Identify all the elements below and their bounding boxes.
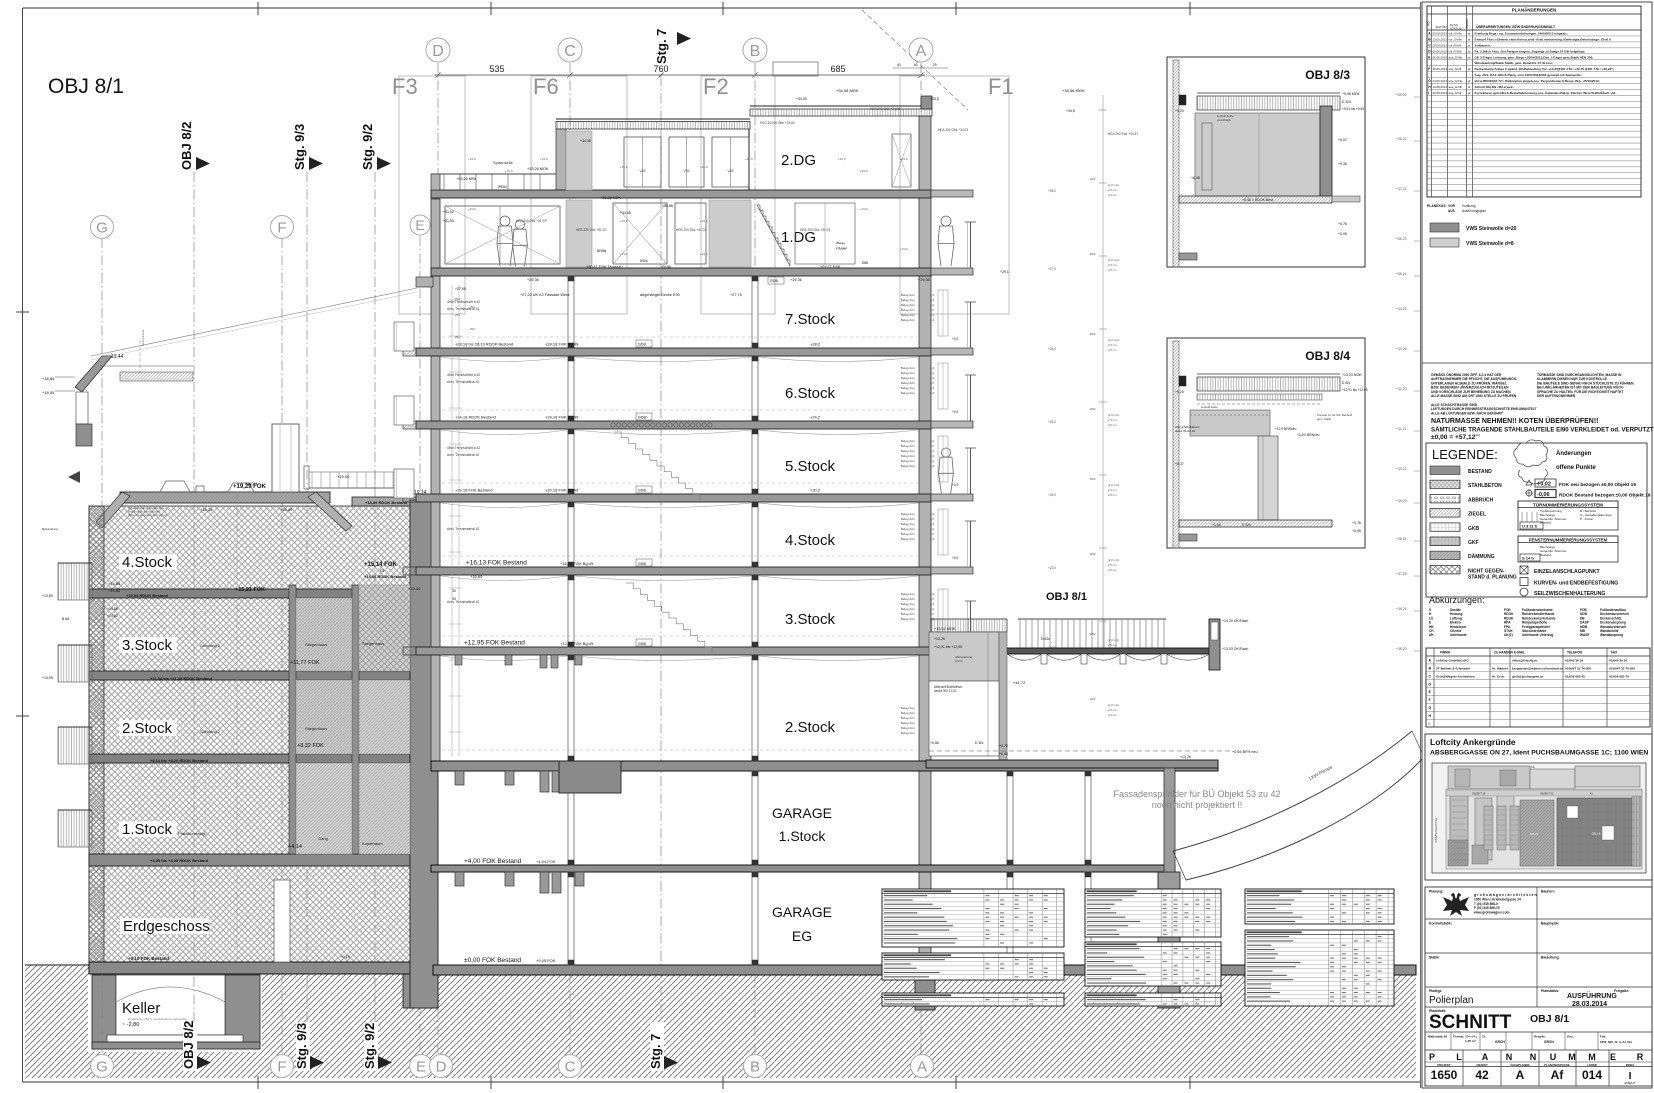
svg-text:4,5 cm: 4,5 cm bbox=[1108, 423, 1117, 427]
svg-text:Fassadensprinkler für BÜ Objek: Fassadensprinkler für BÜ Objekt 53 zu 42 bbox=[1113, 789, 1280, 799]
svg-text:+30,22: +30,22 bbox=[1396, 467, 1407, 471]
svg-text:+31,0: +31,0 bbox=[745, 157, 753, 161]
svg-text:al: al bbox=[1468, 37, 1471, 41]
svg-text:Belag 2cm: Belag 2cm bbox=[901, 459, 916, 463]
svg-text:+20,2: +20,2 bbox=[810, 488, 821, 493]
svg-text:+38,21: +38,21 bbox=[1396, 137, 1407, 141]
svg-text:g r o h s w a g n e r a r c: g r o h s w a g n e r a r c h i t e k t … bbox=[1474, 893, 1537, 897]
svg-text:ABBRUCH: ABBRUCH bbox=[1468, 497, 1494, 503]
svg-text:OBJ 8/2: OBJ 8/2 bbox=[179, 122, 194, 170]
svg-text:+39,23: +39,23 bbox=[1396, 499, 1407, 503]
svg-text:D82: D82 bbox=[1090, 407, 1096, 411]
svg-text:+0,2/2-BFWneu: +0,2/2-BFWneu bbox=[1297, 433, 1320, 437]
svg-text:G: G bbox=[1428, 79, 1431, 83]
svg-text:2,0: 2,0 bbox=[930, 607, 934, 611]
svg-text:FAX: FAX bbox=[1611, 651, 1618, 655]
svg-text:F (01) 545 898-79: F (01) 545 898-79 bbox=[1474, 906, 1500, 910]
svg-text:+0,05: +0,05 bbox=[1352, 529, 1361, 533]
svg-text:2,0: 2,0 bbox=[930, 454, 934, 458]
svg-text:Kontrollstatik:: Kontrollstatik: bbox=[1429, 922, 1452, 926]
svg-text:Wandabsprung: Wandabsprung bbox=[1600, 633, 1623, 637]
svg-text:+15,60: +15,60 bbox=[470, 574, 483, 579]
svg-text:DDB: DDB bbox=[638, 489, 646, 493]
svg-text:+37,22: +37,22 bbox=[1396, 187, 1407, 191]
svg-text:Belag 2cm: Belag 2cm bbox=[901, 318, 916, 322]
svg-text:gem. Statik: gem. Statik bbox=[1317, 417, 1332, 421]
svg-text:+33,26 MOK: +33,26 MOK bbox=[527, 167, 549, 171]
svg-text:(2,0 mm): (2,0 mm) bbox=[1108, 258, 1119, 262]
svg-text:offene Punkte: offene Punkte bbox=[1556, 465, 1596, 471]
svg-text:+31,52: +31,52 bbox=[443, 210, 454, 214]
svg-text:noch nicht projektiert !!: noch nicht projektiert !! bbox=[1152, 800, 1243, 810]
svg-text:Belag 2cm: Belag 2cm bbox=[901, 522, 916, 526]
svg-text:+0,2: +0,2 bbox=[952, 337, 959, 341]
svg-text:+0,10 FOK Bestand: +0,10 FOK Bestand bbox=[128, 956, 169, 961]
svg-text:al: al bbox=[1468, 91, 1471, 95]
svg-text:Belag 2cm: Belag 2cm bbox=[901, 731, 916, 735]
svg-text:PLANEXUS:: PLANEXUS: bbox=[1427, 204, 1447, 208]
svg-text:STAHLBETON: STAHLBETON bbox=[1468, 483, 1502, 489]
svg-text:+33,86: +33,86 bbox=[662, 204, 673, 208]
svg-text:254: 254 bbox=[455, 335, 460, 339]
svg-text:+15,06 RDOK Bestand: +15,06 RDOK Bestand bbox=[364, 574, 407, 579]
svg-text:1:50: 1:50 bbox=[1441, 1035, 1447, 1039]
svg-text:OBJ 8/4: OBJ 8/4 bbox=[1305, 349, 1350, 363]
svg-text:SCHNITT: SCHNITT bbox=[1429, 1012, 1512, 1033]
svg-text:+12,95 FOK Bestand: +12,95 FOK Bestand bbox=[464, 640, 525, 647]
svg-text:014: 014 bbox=[1582, 1068, 1602, 1082]
svg-text:Wendeaufzug/Statik Statik. gem: Wendeaufzug/Statik Statik. gem. Detail;D… bbox=[1475, 61, 1553, 65]
svg-text:C: C bbox=[1429, 674, 1432, 678]
svg-text:ZU HANDEN: ZU HANDEN bbox=[1494, 651, 1513, 655]
svg-text:+16,13 FOK Bestand: +16,13 FOK Bestand bbox=[466, 560, 527, 567]
svg-text:+18,89: +18,89 bbox=[280, 507, 293, 512]
svg-text:+41,72: +41,72 bbox=[1013, 680, 1026, 685]
svg-text:Bestand: Bestand bbox=[1540, 521, 1551, 525]
svg-text:Stg. 9/2: Stg. 9/2 bbox=[360, 124, 375, 170]
svg-text:I: I bbox=[1428, 91, 1429, 95]
svg-text:+11,77 FOK: +11,77 FOK bbox=[290, 660, 320, 666]
svg-text:vor_GV4b: vor_GV4b bbox=[1449, 37, 1462, 41]
svg-text:+18,55: +18,55 bbox=[42, 390, 55, 395]
svg-text:+28,18 FOK Bg.49: +28,18 FOK Bg.49 bbox=[545, 342, 579, 347]
svg-text:Stg. 9/3: Stg. 9/3 bbox=[292, 124, 307, 170]
svg-text:+30,87 FOK Terasse: +30,87 FOK Terasse bbox=[586, 265, 621, 269]
svg-text:Bauherr:: Bauherr: bbox=[1541, 890, 1555, 894]
svg-text:SEILZWISCHENHALTERUNG: SEILZWISCHENHALTERUNG bbox=[1534, 591, 1605, 597]
svg-text:al: al bbox=[1468, 55, 1471, 59]
svg-text:konfekt.beide: konfekt.beide bbox=[1201, 405, 1218, 409]
svg-text:C: C bbox=[565, 1059, 576, 1076]
svg-text:TELEFON: TELEFON bbox=[1567, 651, 1583, 655]
svg-text:F6: F6 bbox=[533, 74, 559, 99]
svg-text:al: al bbox=[1468, 79, 1471, 83]
svg-text:F2: F2 bbox=[703, 74, 729, 99]
svg-text:+12,9 BFWneu: +12,9 BFWneu bbox=[1275, 427, 1297, 431]
svg-text:Änderungen: Änderungen bbox=[1556, 450, 1592, 457]
svg-text:+24,18 FOK Bg.49: +24,18 FOK Bg.49 bbox=[545, 415, 579, 420]
svg-text:aus_GV4f: aus_GV4f bbox=[1449, 67, 1462, 71]
svg-text:D: D bbox=[432, 43, 444, 60]
svg-text:Belag 2cm: Belag 2cm bbox=[901, 454, 916, 458]
svg-text:Entwurf Fass.+Gewerb +aint Kon: Entwurf Fass.+Gewerb +aint Konstr.zeite … bbox=[1475, 37, 1612, 41]
svg-text:+31,0: +31,0 bbox=[620, 165, 628, 169]
svg-text:(2,0 mm): (2,0 mm) bbox=[1108, 558, 1119, 562]
svg-text:BF86k: BF86k bbox=[597, 249, 607, 253]
svg-text:DDB: DDB bbox=[770, 279, 778, 283]
svg-text:+31,0: +31,0 bbox=[860, 207, 868, 211]
svg-text:+0,19: +0,19 bbox=[340, 954, 351, 959]
svg-text:al: al bbox=[1468, 49, 1471, 53]
svg-text:2,0: 2,0 bbox=[930, 532, 934, 536]
svg-text:2,5 cm: 2,5 cm bbox=[1108, 263, 1117, 267]
svg-text:+12,91 bis +12,95: +12,91 bis +12,95 bbox=[934, 645, 962, 649]
svg-text:+19,44: +19,44 bbox=[245, 481, 258, 486]
svg-text:Belag 2cm: Belag 2cm bbox=[901, 711, 916, 715]
svg-text:aus_GV4i: aus_GV4i bbox=[1449, 91, 1462, 95]
svg-text:A: A bbox=[1482, 1052, 1489, 1062]
svg-text:UK: UK bbox=[1429, 633, 1434, 637]
svg-text:254: 254 bbox=[470, 305, 475, 309]
svg-text:D: D bbox=[1429, 682, 1432, 686]
svg-text:GRCH: GRCH bbox=[1544, 1040, 1554, 1044]
svg-text:3.Stock: 3.Stock bbox=[785, 611, 836, 628]
svg-text:Belag 2cm: Belag 2cm bbox=[901, 391, 916, 395]
svg-text:OBJ 8/1: OBJ 8/1 bbox=[48, 75, 124, 98]
svg-text:2,5 cm: 2,5 cm bbox=[1108, 488, 1117, 492]
svg-text:+15,14 FOK: +15,14 FOK bbox=[364, 562, 398, 568]
svg-text:U 3 21 b: U 3 21 b bbox=[1522, 524, 1538, 529]
svg-text:abgehängte Decke E90: abgehängte Decke E90 bbox=[640, 293, 680, 297]
svg-text:+24,18 RDOK Bestand: +24,18 RDOK Bestand bbox=[455, 415, 496, 420]
svg-text:G: G bbox=[1429, 706, 1432, 710]
svg-text:2,0: 2,0 bbox=[930, 293, 934, 297]
svg-text:Statik:: Statik: bbox=[1429, 956, 1439, 960]
svg-text:OBJ 8/1: OBJ 8/1 bbox=[1530, 1013, 1569, 1025]
svg-text:4,5 cm: 4,5 cm bbox=[1108, 268, 1117, 272]
svg-text:TÜRNUMMERIERUNGSSYSTEM: TÜRNUMMERIERUNGSSYSTEM bbox=[1533, 502, 1603, 508]
svg-text:+27,0: +27,0 bbox=[1048, 267, 1056, 271]
svg-text:+24,2: +24,2 bbox=[810, 415, 821, 420]
svg-text:+9,20: +9,20 bbox=[1175, 109, 1184, 113]
svg-text:(2,0 mm): (2,0 mm) bbox=[1108, 703, 1119, 707]
svg-text:+31,0: +31,0 bbox=[900, 157, 908, 161]
svg-text:01/660 39 50: 01/660 39 50 bbox=[1609, 659, 1627, 663]
svg-text:E: E bbox=[1610, 1052, 1616, 1062]
svg-text:Belag 2cm: Belag 2cm bbox=[901, 517, 916, 521]
svg-text:+32,20: +32,20 bbox=[1396, 387, 1407, 391]
svg-text:D 32d: D 32d bbox=[1342, 100, 1351, 104]
svg-text:Belag 2cm: Belag 2cm bbox=[901, 439, 916, 443]
svg-text:F: F bbox=[277, 219, 286, 236]
svg-text:+31,0: +31,0 bbox=[540, 157, 548, 161]
svg-text:2,5 cm: 2,5 cm bbox=[1108, 563, 1117, 567]
svg-text:+14,82: +14,82 bbox=[107, 614, 118, 618]
svg-text:+16,13 FOK Bg.49: +16,13 FOK Bg.49 bbox=[560, 561, 594, 566]
svg-text:+27,95: +27,95 bbox=[455, 287, 466, 291]
svg-text:Erdgeschoss: Erdgeschoss bbox=[123, 918, 210, 935]
svg-text:0316/67 32 76-500: 0316/67 32 76-500 bbox=[1565, 667, 1591, 671]
svg-text:+20,18 FOK Bestand: +20,18 FOK Bestand bbox=[455, 488, 492, 493]
svg-text:+34,05: +34,05 bbox=[796, 97, 807, 101]
svg-text:+14,82: +14,82 bbox=[108, 588, 121, 593]
svg-text:WASP: WASP bbox=[1580, 633, 1590, 637]
svg-text:2,5 cm: 2,5 cm bbox=[1108, 188, 1117, 192]
svg-text:UK(Z): UK(Z) bbox=[1504, 633, 1513, 637]
svg-text:254: 254 bbox=[455, 313, 460, 317]
svg-text:D 32c: D 32c bbox=[975, 741, 984, 745]
svg-text:20.08.2014: 20.08.2014 bbox=[1433, 91, 1448, 95]
svg-text:(Belag: (Belag bbox=[836, 241, 845, 245]
svg-text:685: 685 bbox=[830, 64, 845, 74]
svg-text:Stiegenhaus: Stiegenhaus bbox=[305, 726, 327, 731]
svg-text:2.Stock: 2.Stock bbox=[122, 720, 173, 737]
svg-text:vor_GV4a: vor_GV4a bbox=[1449, 31, 1462, 35]
svg-text:Behandlung: Behandlung bbox=[42, 527, 58, 531]
svg-text:Stg. 7: Stg. 7 bbox=[648, 1034, 663, 1069]
svg-text:(2,0 mm): (2,0 mm) bbox=[1108, 483, 1119, 487]
svg-text:DDB: DDB bbox=[638, 343, 646, 347]
svg-text:Ausführungsplan: Ausführungsplan bbox=[1462, 209, 1486, 213]
svg-text:2,0: 2,0 bbox=[930, 381, 934, 385]
svg-text:FOK neu bezogen ±0,00 Objekt 1: FOK neu bezogen ±0,00 Objekt 19 bbox=[1559, 482, 1636, 488]
svg-text:GK 3-Träger Leistung. gem. Bie: GK 3-Träger Leistung. gem. Biege +20/04/… bbox=[1475, 55, 1594, 59]
svg-text:2,0: 2,0 bbox=[930, 391, 934, 395]
svg-text:N: N bbox=[1530, 1052, 1537, 1062]
svg-text:+13,03 MOK: +13,03 MOK bbox=[1342, 373, 1362, 377]
svg-text:Gang: Gang bbox=[318, 836, 328, 841]
svg-text:Polierplan: Polierplan bbox=[1429, 995, 1473, 1006]
svg-text:2,0: 2,0 bbox=[930, 537, 934, 541]
svg-text:+4,00 FOK Bestand: +4,00 FOK Bestand bbox=[464, 858, 522, 865]
svg-text:42: 42 bbox=[1475, 1068, 1489, 1082]
svg-text:+6,48 = RDOK Best.: +6,48 = RDOK Best. bbox=[1242, 198, 1274, 202]
svg-text:Belag 2cm: Belag 2cm bbox=[901, 716, 916, 720]
svg-text:Belag 2cm: Belag 2cm bbox=[901, 313, 916, 317]
svg-text:28.06.2013: 28.06.2013 bbox=[1433, 67, 1448, 71]
svg-text:2,0: 2,0 bbox=[930, 376, 934, 380]
svg-text:OBJEKT 19: OBJEKT 19 bbox=[1472, 793, 1486, 796]
svg-text:HEB 220 Obk +31,02: HEB 220 Obk +31,02 bbox=[576, 228, 606, 232]
svg-text:2,5 cm: 2,5 cm bbox=[1108, 343, 1117, 347]
svg-text:HEA 400 Obk +31 EP: HEA 400 Obk +31 EP bbox=[516, 219, 547, 223]
svg-text:19.06.2013: 19.06.2013 bbox=[1433, 49, 1448, 53]
svg-text:2,0: 2,0 bbox=[930, 597, 934, 601]
svg-text:D 62c: D 62c bbox=[1041, 637, 1050, 641]
svg-text:2,0: 2,0 bbox=[930, 464, 934, 468]
svg-text:F1: F1 bbox=[988, 74, 1014, 99]
svg-text:L: L bbox=[1456, 1052, 1462, 1062]
svg-text:E: E bbox=[416, 1059, 426, 1076]
svg-text:A: A bbox=[916, 43, 927, 60]
svg-text:OBJ 8/3: OBJ 8/3 bbox=[1305, 68, 1350, 82]
svg-text:Belag 2cm: Belag 2cm bbox=[901, 444, 916, 448]
svg-text:GARAGE: GARAGE bbox=[772, 805, 832, 821]
svg-text:2,0: 2,0 bbox=[930, 449, 934, 453]
svg-text:2,0: 2,0 bbox=[930, 612, 934, 616]
svg-text:+34,08 MOK: +34,08 MOK bbox=[836, 88, 859, 93]
svg-text:Schnitt Obj.8/9 +B/I erweit.;: Schnitt Obj.8/9 +B/I erweit.; bbox=[1475, 85, 1515, 89]
svg-text:Stg. 9/2: Stg. 9/2 bbox=[362, 1023, 377, 1069]
svg-text:+31,0: +31,0 bbox=[620, 252, 628, 256]
svg-text:2,0: 2,0 bbox=[930, 308, 934, 312]
svg-text:+11,04 bis +11,09 RDOK Bestand: +11,04 bis +11,09 RDOK Bestand bbox=[150, 676, 213, 681]
svg-text:2,0: 2,0 bbox=[930, 522, 934, 526]
svg-text:Belag 2cm: Belag 2cm bbox=[901, 607, 916, 611]
svg-text:+34,6: +34,6 bbox=[1066, 109, 1075, 113]
svg-text:G: G bbox=[96, 1059, 108, 1076]
svg-text:Bauleitung:: Bauleitung: bbox=[1541, 956, 1560, 960]
svg-text:NATURMASSE NEHMEN!! KOTEN ÜBER: NATURMASSE NEHMEN!! KOTEN ÜBERPRÜFEN!! bbox=[1431, 416, 1598, 425]
svg-text:V55: V55 bbox=[639, 169, 645, 173]
svg-text:Belag 2cm: Belag 2cm bbox=[901, 527, 916, 531]
svg-text:VWS Steinwolle d=8: VWS Steinwolle d=8 bbox=[1466, 241, 1514, 247]
svg-text:Belag 2cm: Belag 2cm bbox=[901, 706, 916, 710]
svg-text:+3,95 bis +4,05 RDOK Bestand: +3,95 bis +4,05 RDOK Bestand bbox=[150, 858, 209, 863]
svg-text:6.Stock: 6.Stock bbox=[785, 385, 836, 402]
svg-text:Verst.RDOKb04 72 I. Balkonplan: Verst.RDOKb04 72 I. Balkonplan eingeb.po… bbox=[1475, 79, 1600, 83]
svg-text:GKB: GKB bbox=[1468, 526, 1480, 532]
svg-text:+9,91 bis +9,95: +9,91 bis +9,95 bbox=[1342, 107, 1364, 111]
svg-text:±0,00 FOK Bestand: ±0,00 FOK Bestand bbox=[464, 957, 521, 964]
svg-text:2,0: 2,0 bbox=[930, 592, 934, 596]
svg-text:Belag 2cm: Belag 2cm bbox=[901, 617, 916, 621]
svg-text:2,0: 2,0 bbox=[930, 602, 934, 606]
svg-text:2,0: 2,0 bbox=[930, 298, 934, 302]
svg-text:EINZELANSCHLAGPUNKT: EINZELANSCHLAGPUNKT bbox=[1534, 569, 1601, 575]
svg-text:2,0: 2,0 bbox=[930, 512, 934, 516]
svg-text:1650_S08_42_A_Af_014: 1650_S08_42_A_Af_014 bbox=[1600, 1040, 1632, 1044]
svg-text:+12,95 FOK Bg.49: +12,95 FOK Bg.49 bbox=[560, 641, 594, 646]
svg-text:IND.: IND. bbox=[1427, 21, 1431, 26]
svg-text:+29,36: +29,36 bbox=[790, 278, 802, 282]
svg-text:Belag 2cm: Belag 2cm bbox=[901, 376, 916, 380]
svg-text:1050 Wien | Kriehubergasse 24: 1050 Wien | Kriehubergasse 24 bbox=[1474, 897, 1521, 901]
svg-text:HEA 260 Obk +34,57: HEA 260 Obk +34,57 bbox=[1108, 132, 1138, 136]
svg-text:2.DG: 2.DG bbox=[781, 152, 816, 169]
svg-text:OBJ 8/2: OBJ 8/2 bbox=[181, 1021, 196, 1069]
svg-text:4.Stock: 4.Stock bbox=[122, 554, 173, 571]
svg-text:LEGENDE:: LEGENDE: bbox=[1432, 447, 1498, 462]
svg-text:E: E bbox=[415, 217, 424, 233]
svg-text:2,0: 2,0 bbox=[930, 303, 934, 307]
svg-text:ALLE MASSE SIND AM ORT UND STE: ALLE MASSE SIND AM ORT UND STELLE ZU PRÜ… bbox=[1431, 394, 1517, 398]
svg-text:GRCH: GRCH bbox=[1495, 1040, 1505, 1044]
svg-text:FENSTERNUMMERIERUNGSSYSTEM: FENSTERNUMMERIERUNGSSYSTEM bbox=[1529, 538, 1608, 543]
svg-text:Aug. 28.4. DA4: HKLS-Plang. vo: Aug. 28.4. DA4: HKLS-Plang. vom 10/07/20… bbox=[1475, 73, 1582, 77]
svg-text:D82: D82 bbox=[1090, 697, 1096, 701]
svg-text:(2,0 mm): (2,0 mm) bbox=[1108, 638, 1119, 642]
svg-text:Kopierraum: Kopierraum bbox=[362, 841, 383, 846]
svg-text:Stiegenhaus: Stiegenhaus bbox=[362, 641, 384, 646]
svg-text:AUS: AUS bbox=[1448, 209, 1455, 213]
svg-text:DDB: DDB bbox=[638, 562, 646, 566]
svg-text:+29,71 FOK: +29,71 FOK bbox=[820, 265, 841, 269]
svg-text:24.06.2013: 24.06.2013 bbox=[1433, 79, 1448, 83]
svg-text:VWS Steinwolle d=20: VWS Steinwolle d=20 bbox=[1466, 226, 1517, 232]
svg-text:V55: V55 bbox=[683, 169, 689, 173]
svg-text:+24,0: +24,0 bbox=[1048, 493, 1056, 497]
svg-text:+31,0: +31,0 bbox=[900, 247, 908, 251]
svg-text:I: I bbox=[1429, 722, 1430, 726]
svg-text:+31,0: +31,0 bbox=[700, 165, 708, 169]
svg-text:Korrekturen gem.HKLS-Bestellab: Korrekturen gem.HKLS-Bestellabmessung po… bbox=[1475, 91, 1617, 95]
svg-text:Fundamente u.Bpl. lt. stat. Er: Fundamente u.Bpl. lt. stat. Erfordernis … bbox=[128, 1017, 187, 1021]
svg-text:DDB: DDB bbox=[638, 642, 646, 646]
svg-text:+13,26: +13,26 bbox=[1180, 755, 1191, 759]
svg-text:2,0: 2,0 bbox=[930, 527, 934, 531]
svg-text:1650: 1650 bbox=[1431, 1068, 1458, 1082]
svg-text:+27,20 UK K2 Fassade Werd: +27,20 UK K2 Fassade Werd bbox=[520, 293, 569, 297]
svg-text:A: A bbox=[917, 1059, 927, 1076]
svg-text:(2,0 mm): (2,0 mm) bbox=[1108, 413, 1119, 417]
svg-text:+10,89: +10,89 bbox=[42, 594, 53, 598]
svg-text:FIRMA: FIRMA bbox=[1440, 651, 1451, 655]
svg-text:+31,0: +31,0 bbox=[468, 157, 476, 161]
svg-text:+36,23: +36,23 bbox=[1396, 237, 1407, 241]
svg-text:+33,65: +33,65 bbox=[620, 211, 631, 215]
svg-text:D82: D82 bbox=[1090, 332, 1096, 336]
svg-text:HEB 220 Obk +31,03: HEB 220 Obk +31,03 bbox=[676, 228, 706, 232]
svg-text:Belag 2cm: Belag 2cm bbox=[901, 597, 916, 601]
svg-text:Spannseile: Spannseile bbox=[493, 160, 514, 165]
svg-text:2,0: 2,0 bbox=[930, 386, 934, 390]
svg-text:Planung:: Planung: bbox=[1429, 890, 1444, 894]
svg-text:254: 254 bbox=[455, 297, 460, 301]
svg-text:+31,0: +31,0 bbox=[620, 219, 628, 223]
svg-text:Groh&Wagner Architekten: Groh&Wagner Architekten bbox=[1436, 674, 1475, 678]
svg-text:Belag 2cm: Belag 2cm bbox=[901, 592, 916, 596]
svg-text:DDB: DDB bbox=[638, 416, 646, 420]
svg-text:B 66: B 66 bbox=[62, 617, 69, 621]
svg-text:+28,0: +28,0 bbox=[1048, 189, 1056, 193]
svg-text:(2,0 mm): (2,0 mm) bbox=[1108, 183, 1119, 187]
svg-text:(Bitte: Fassadenkopf einrichte: (Bitte: Fassadenkopf einrichten) bbox=[128, 513, 168, 517]
svg-text:Planstatus:: Planstatus: bbox=[1541, 989, 1559, 993]
svg-text:+19,00: +19,00 bbox=[337, 474, 350, 479]
svg-text:+0,76: +0,76 bbox=[1338, 222, 1347, 226]
svg-text:+12,91 bis +12,95: +12,91 bis +12,95 bbox=[1342, 388, 1368, 392]
svg-text:Hr. Groh: Hr. Groh bbox=[1492, 674, 1504, 678]
svg-text:1.Stock: 1.Stock bbox=[122, 821, 173, 838]
svg-text:Belag 2cm: Belag 2cm bbox=[901, 602, 916, 606]
svg-text:PROJEKT: PROJEKT bbox=[1437, 1063, 1451, 1067]
svg-text:Deckenkante Anbau C geänd.;GK/: Deckenkante Anbau C geänd.;GK/Bekleidung… bbox=[1475, 67, 1614, 71]
svg-text:OBJ 9: OBJ 9 bbox=[1530, 832, 1539, 836]
svg-text:+33,26: +33,26 bbox=[1396, 347, 1407, 351]
svg-text:Gesimskante: Gesimskante bbox=[141, 329, 145, 346]
svg-text:Belag 2cm: Belag 2cm bbox=[901, 303, 916, 307]
svg-text:ZIEGEL: ZIEGEL bbox=[1468, 512, 1486, 518]
svg-text:Praktikumsbegl.: Praktikumsbegl. bbox=[178, 831, 206, 836]
svg-text:24.06.2013: 24.06.2013 bbox=[1433, 43, 1448, 47]
svg-text:HEB 200 Obk +31,03: HEB 200 Obk +31,03 bbox=[800, 228, 830, 232]
svg-text:D 62c: D 62c bbox=[1342, 381, 1351, 385]
svg-text:0316/67 32 76-550: 0316/67 32 76-550 bbox=[1609, 667, 1635, 671]
svg-text:+4,04 FOK: +4,04 FOK bbox=[536, 859, 556, 864]
svg-text:D82: D82 bbox=[1090, 552, 1096, 556]
svg-text:Format: Format bbox=[1453, 1035, 1464, 1039]
svg-text:Belag 2cm: Belag 2cm bbox=[901, 293, 916, 297]
svg-text:+31,0: +31,0 bbox=[468, 207, 476, 211]
svg-text:2.Stock: 2.Stock bbox=[785, 719, 836, 736]
svg-text:+37,25: +37,25 bbox=[1396, 572, 1407, 576]
svg-text:F: F bbox=[277, 1059, 286, 1076]
svg-text:+15,04 RDOK Bestand: +15,04 RDOK Bestand bbox=[126, 593, 169, 598]
svg-text:+0,65 BFH neu: +0,65 BFH neu bbox=[1232, 750, 1258, 754]
svg-text:Projekt:: Projekt: bbox=[1534, 1035, 1546, 1039]
svg-text:HEA 340 Obk +34,05: HEA 340 Obk +34,05 bbox=[870, 107, 900, 111]
